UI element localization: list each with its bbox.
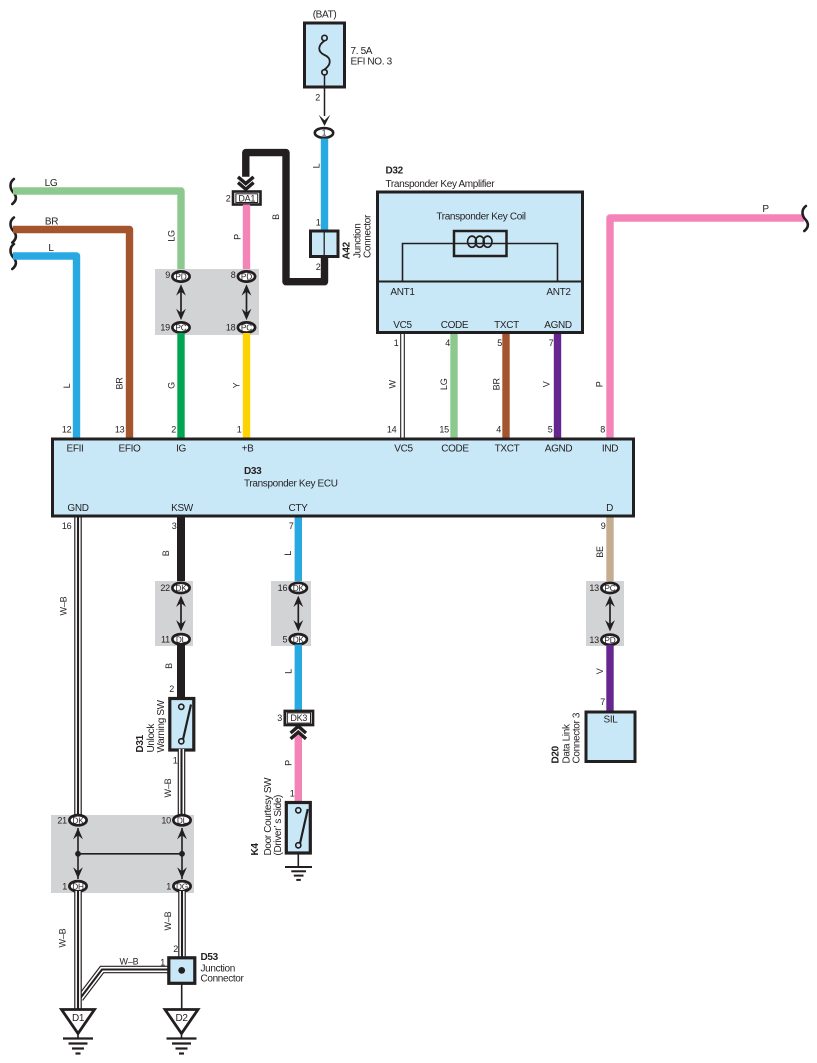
svg-text:1: 1 [237,425,242,435]
ground D2 lead [181,1034,183,1039]
svg-text:+B: +B [242,444,254,455]
svg-text:1: 1 [316,217,321,227]
node 8 PD [238,271,255,281]
svg-text:D31: D31 [135,734,146,752]
switch D31 box [170,699,194,751]
node link line right [181,828,183,879]
svg-text:LG: LG [45,178,58,189]
amplifier D32 box [378,192,583,333]
junction block bg PC/PD [586,581,624,646]
junction block bg [155,269,259,335]
svg-text:2: 2 [316,262,321,272]
arrow up to DL [177,828,187,839]
page-link arrow from DK3 [291,726,306,733]
fuse EFI NO.3 box [305,23,345,87]
arrow down to DG [177,867,187,878]
svg-text:D20: D20 [551,745,562,763]
svg-text:9: 9 [165,270,170,280]
wire BE (beige) D to 13 PC [606,518,613,591]
svg-text:EFI NO. 3: EFI NO. 3 [351,57,393,68]
junction dot D53 [178,967,185,974]
wire W (white) VC5 [400,334,402,439]
node 13 PD [601,635,618,645]
svg-text:TXCT: TXCT [494,320,519,331]
svg-text:DL: DL [176,634,187,644]
svg-text:7: 7 [600,697,605,707]
svg-text:P: P [595,381,605,387]
wire BR (brown) to EFIO [13,230,130,439]
svg-text:B: B [164,663,174,669]
svg-text:7. 5A: 7. 5A [351,46,373,57]
wire L (blue) DK to DK3 [295,645,302,712]
switch contacts K4 [300,809,308,844]
node 22 DK [172,583,189,593]
svg-text:1: 1 [322,128,327,138]
node 13 PC [601,583,618,593]
svg-text:21: 21 [57,815,67,825]
svg-text:V: V [542,381,552,387]
svg-text:IND: IND [602,444,618,455]
svg-text:3: 3 [277,713,282,723]
double arrow right [242,284,252,320]
svg-text:Warning SW: Warning SW [156,699,167,752]
svg-text:2: 2 [169,684,174,694]
svg-text:D: D [606,503,613,514]
junction block bg [51,815,194,893]
svg-text:7: 7 [549,338,554,348]
coil symbol [454,243,507,245]
node 1 DG [173,881,190,891]
svg-text:PC: PC [604,583,615,593]
svg-text:5: 5 [282,634,287,644]
svg-text:P: P [284,760,294,766]
svg-text:14: 14 [387,425,397,435]
svg-text:L: L [62,383,72,388]
svg-text:PC: PC [241,323,252,333]
svg-text:1: 1 [166,881,171,891]
svg-text:L: L [48,243,54,254]
svg-text:22: 22 [160,583,170,593]
svg-text:L: L [312,163,322,168]
svg-text:18: 18 [226,323,236,333]
svg-text:(BAT): (BAT) [313,10,337,21]
node 1 DH [69,881,86,891]
svg-text:TXCT: TXCT [495,444,520,455]
svg-text:L: L [284,669,294,674]
svg-text:1: 1 [394,338,399,348]
wire B (black) DL to D31 [177,645,185,700]
junction block bg DK/DL [155,581,193,646]
svg-text:L: L [283,551,293,556]
svg-text:8: 8 [600,425,605,435]
svg-text:Y: Y [232,382,242,388]
wire Y (yellow) PC to +B [243,333,250,439]
junction dot left [75,851,81,857]
wire BR (brown) TXCT [502,334,509,439]
svg-text:BR: BR [45,217,58,228]
svg-text:16: 16 [278,583,288,593]
arrow up to DK [73,828,83,839]
fuse element symbol [319,41,330,70]
svg-text:DH: DH [72,881,84,891]
wire coil to ANT1 [403,244,455,282]
arrow down to DH [73,867,83,878]
svg-text:W–B: W–B [120,957,139,967]
node 1 ellipse [315,128,333,138]
double arrow left [176,284,186,320]
junction connector D53 [169,958,195,984]
node link line left [77,828,79,879]
ground D2 symbol [167,1037,197,1039]
wire V (violet) PD to D20 [606,645,613,712]
wire W-B DG to D53 [178,891,186,958]
ECU D33 box [53,439,634,516]
junction dot right [179,851,185,857]
svg-text:EFII: EFII [67,444,84,455]
svg-text:K4: K4 [250,843,261,856]
wire LG (lt green) CODE [450,334,457,439]
svg-text:DK: DK [293,583,305,593]
node 10 DL [173,815,190,825]
svg-text:DA1: DA1 [238,193,255,203]
svg-text:CODE: CODE [441,320,469,331]
svg-text:2: 2 [226,193,231,203]
svg-text:LG: LG [167,230,177,242]
wire L (blue) to EFII [13,256,77,439]
svg-text:Connector: Connector [201,974,245,985]
svg-text:A42: A42 [342,241,353,259]
svg-text:PD: PD [175,272,186,282]
wire P (pink) IND from off-page [610,218,804,439]
svg-text:11: 11 [161,634,170,644]
svg-text:13: 13 [589,583,599,593]
svg-text:2: 2 [173,944,178,954]
svg-text:AGND: AGND [544,320,572,331]
svg-text:2: 2 [171,425,176,435]
svg-text:LG: LG [439,378,449,390]
svg-text:12: 12 [62,425,72,435]
svg-text:GND: GND [67,503,88,514]
switch K4 box [286,803,310,854]
svg-text:2: 2 [315,93,320,103]
bus wire between junctions [78,853,182,855]
svg-text:3: 3 [172,521,177,531]
svg-text:D53: D53 [201,952,219,963]
svg-text:IG: IG [176,444,186,455]
svg-text:KSW: KSW [171,503,194,514]
svg-text:SIL: SIL [604,715,619,726]
svg-text:PC: PC [175,323,186,333]
coil box [454,231,507,256]
wire P (pink) DA1 to PD [243,205,250,273]
divider line ANT row [378,281,583,283]
svg-text:Transponder Key ECU: Transponder Key ECU [244,479,338,490]
svg-text:BR: BR [115,377,125,390]
node 21 DK [69,815,86,825]
svg-text:VC5: VC5 [393,320,412,331]
svg-text:D33: D33 [244,466,262,477]
ground lead K4 [297,854,299,867]
wire B (black) KSW to 22 DK [177,518,185,591]
connector DK3 [285,711,313,725]
page-link arrow into DA1 [238,177,254,184]
svg-text:8: 8 [231,270,236,280]
svg-text:Connector: Connector [363,214,374,258]
node 5 DK [290,634,307,644]
ground D1 triangle [62,1010,95,1034]
wire P (pink) to K4 [295,735,302,804]
svg-text:P: P [233,234,243,240]
svg-text:Transponder Key Amplifier: Transponder Key Amplifier [386,179,496,190]
svg-text:15: 15 [439,425,449,435]
wire W-B branch to D53 pin 1 [80,970,168,999]
wire V (violet) AGND [554,334,561,439]
svg-text:PD: PD [604,635,615,645]
node 16 DK [290,583,307,593]
svg-text:9: 9 [601,521,606,531]
svg-text:ANT2: ANT2 [546,287,571,298]
svg-text:DK: DK [175,583,187,593]
svg-text:1: 1 [290,789,295,799]
connector DA1 [233,192,261,205]
svg-text:B: B [161,550,171,556]
svg-text:DK: DK [72,815,84,825]
svg-text:Transponder Key Coil: Transponder Key Coil [436,212,525,223]
svg-text:DK3: DK3 [290,713,307,723]
svg-text:D32: D32 [386,166,404,177]
svg-text:CTY: CTY [289,503,309,514]
svg-text:10: 10 [161,815,171,825]
svg-text:4: 4 [445,338,450,348]
double arrow [605,596,615,632]
svg-text:13: 13 [115,425,125,435]
svg-text:VC5: VC5 [394,444,413,455]
node 18 PC [238,322,255,332]
connector D20 box [586,712,635,762]
node 19 PC [172,322,189,332]
junction block bg DK/DK [271,581,311,646]
wire G (green) PC to IG [177,333,184,439]
svg-text:DK: DK [293,634,305,644]
svg-text:W–B: W–B [58,928,68,947]
svg-text:BR: BR [492,378,502,391]
svg-text:CODE: CODE [441,444,469,455]
svg-text:V: V [595,668,605,674]
wire W-B DH to D1 [74,891,82,1009]
wire L (blue) CTY to 16 DK [295,518,302,591]
svg-text:1: 1 [62,881,67,891]
svg-text:ANT1: ANT1 [390,287,415,298]
svg-text:W: W [388,379,398,388]
svg-text:P: P [762,204,769,215]
ground D1 lead [77,1034,79,1039]
off-page squiggle P [803,206,808,231]
svg-text:1: 1 [173,756,178,766]
ground symbol K4 [285,866,312,868]
wire B (black) A42 to DA1 [246,153,325,282]
svg-text:5: 5 [497,338,502,348]
svg-text:DG: DG [176,881,188,891]
double arrow [176,596,186,632]
svg-text:19: 19 [160,323,170,333]
node 11 DL [172,634,189,644]
wire W-B D31 to 10 DL [178,749,186,817]
off-page squiggle BR [11,218,16,243]
ground D2 triangle [165,1010,198,1034]
wire coil to ANT2 [507,244,558,282]
svg-text:5: 5 [548,425,553,435]
off-page squiggle LG [11,179,16,204]
wire fuse lead down [324,75,326,116]
svg-text:(Driver’ s Side): (Driver’ s Side) [273,795,284,856]
arrow into node 1 [319,115,331,126]
svg-text:7: 7 [289,521,294,531]
switch contacts D31 [183,705,191,740]
svg-text:BE: BE [595,546,605,558]
svg-text:D1: D1 [72,1013,85,1024]
svg-text:EFIO: EFIO [119,444,142,455]
svg-text:AGND: AGND [545,444,573,455]
node 9 PD [172,271,189,281]
svg-text:Connector 3: Connector 3 [572,712,583,763]
svg-text:B: B [271,214,281,220]
svg-text:16: 16 [62,521,72,531]
wire L (blue) fuse to A42 [321,139,328,232]
svg-text:4: 4 [496,425,501,435]
ground D1 symbol [63,1037,93,1039]
svg-text:W–B: W–B [163,778,173,797]
svg-text:PD: PD [241,272,252,282]
off-page squiggle L [11,244,16,269]
junction connector A42 [311,231,339,257]
svg-text:DL: DL [177,815,188,825]
wire W-B GND to 21 DK [74,518,82,818]
svg-text:D2: D2 [175,1013,188,1024]
svg-text:G: G [167,382,177,389]
double arrow [293,596,303,632]
svg-text:13: 13 [589,635,599,645]
wire LG (lt green) to IG column [13,191,181,272]
svg-text:W–B: W–B [59,596,69,615]
wire D53 to D2 [181,983,183,1010]
svg-text:1: 1 [160,958,165,968]
svg-text:W–B: W–B [163,911,173,930]
